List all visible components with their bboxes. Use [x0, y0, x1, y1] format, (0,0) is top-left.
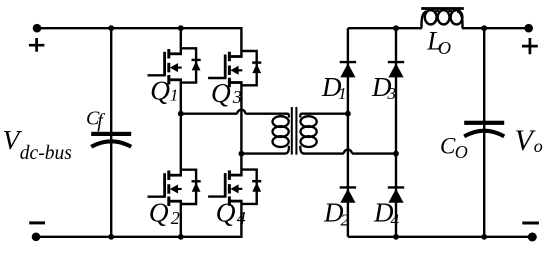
wire Cf branch vertical: [110, 28, 112, 237]
transformer core: [291, 107, 298, 155]
inductor LO: [421, 7, 464, 28]
transistor Q1: [148, 48, 201, 84]
node Cf bottom: [108, 234, 114, 240]
wire top-right rail left of inductor: [348, 27, 422, 29]
label Vo: [515, 124, 543, 157]
transistor Q4: [208, 170, 261, 206]
label LO: [426, 26, 451, 58]
wire leg B middle (Q3 source to Q4 drain): [240, 83, 242, 176]
label D4: [373, 198, 400, 230]
node Co bottom: [481, 234, 487, 240]
transistor Q3: [208, 51, 261, 87]
wire secondary top lead: [301, 112, 348, 114]
svg-text:dc-bus: dc-bus: [20, 143, 72, 164]
terminal output negative: [528, 233, 537, 242]
svg-text:C: C: [440, 134, 456, 159]
label D2: [323, 198, 350, 230]
svg-text:3: 3: [232, 87, 242, 107]
node leg A midpoint: [178, 111, 184, 117]
wire primary bottom lead: [241, 152, 285, 154]
diode D2: [340, 187, 356, 202]
svg-text:1: 1: [338, 84, 347, 103]
svg-text:Q: Q: [211, 77, 231, 108]
plus sign input: [29, 38, 45, 52]
wire top-right rail right of inductor: [462, 27, 529, 29]
label Cf: [86, 108, 105, 133]
svg-text:1: 1: [170, 85, 179, 104]
wire Q2 source to bottom rail: [180, 201, 182, 237]
capacitor Co: [464, 121, 504, 137]
label Q1: [150, 74, 178, 105]
wire Q1 drain stub: [180, 28, 182, 54]
label D1: [321, 72, 347, 103]
minus sign output: [522, 222, 539, 225]
transformer secondary winding: [300, 114, 316, 154]
wire rectifier leg D3-D4: [395, 28, 397, 237]
svg-text:O: O: [455, 142, 468, 162]
transistor Q2: [148, 170, 201, 206]
svg-text:Q: Q: [149, 196, 169, 227]
node Co top: [481, 25, 487, 31]
wire secondary bottom lead with hop over D1-D2 leg: [303, 150, 396, 154]
label V dc-bus: [3, 124, 72, 164]
node Q2 source: [178, 234, 184, 240]
svg-text:o: o: [534, 136, 543, 156]
svg-text:4: 4: [391, 210, 400, 229]
wire rectifier leg D1-D2: [347, 28, 349, 237]
capacitor Cf: [91, 132, 131, 147]
label Q4: [216, 196, 246, 228]
diode D1: [340, 62, 356, 77]
terminal output positive: [524, 24, 533, 33]
wire bottom-right rail: [348, 236, 532, 238]
label D3: [371, 72, 396, 103]
plus sign output: [522, 38, 538, 54]
wire top-left DC bus rail into Q3 drain: [37, 28, 241, 56]
svg-text:4: 4: [237, 208, 246, 228]
label Q2: [149, 196, 180, 228]
terminal DC bus positive: [33, 24, 42, 33]
wire primary top lead with hop over leg B: [181, 110, 288, 114]
diode D4: [388, 187, 404, 202]
svg-text:Q: Q: [216, 196, 236, 227]
label Q3: [211, 77, 242, 108]
label Co: [440, 134, 468, 162]
node Q1 drain: [178, 25, 184, 31]
minus sign input: [29, 221, 45, 224]
svg-text:Q: Q: [150, 74, 170, 105]
svg-text:2: 2: [341, 210, 350, 229]
node D3-D4 midpoint: [393, 151, 399, 157]
wire leg A middle (Q1 source to Q2 drain): [180, 80, 182, 175]
terminal DC bus negative: [32, 233, 41, 242]
node D3 top: [393, 25, 399, 31]
svg-text:3: 3: [387, 84, 397, 103]
svg-text:2: 2: [171, 208, 180, 228]
wire bottom-left DC bus rail into Q4 source: [36, 201, 241, 237]
node D1-D2 midpoint: [345, 111, 351, 117]
node Cf top: [108, 25, 114, 31]
transformer primary winding: [273, 114, 289, 154]
node D4 bottom: [393, 234, 399, 240]
diode D3: [388, 62, 404, 77]
svg-text:O: O: [438, 38, 451, 58]
node leg B midpoint: [239, 151, 245, 157]
wire Co branch vertical: [483, 28, 485, 237]
